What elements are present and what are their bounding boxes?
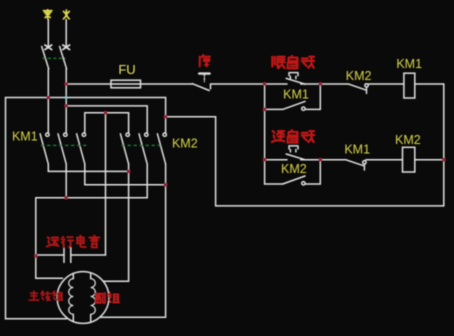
stop button blade: [192, 84, 209, 91]
coil KM2: [403, 147, 415, 172]
start fwd button cap: [289, 73, 298, 79]
wire C3 top lead: [84, 113, 86, 133]
start rev button blade: [286, 154, 305, 160]
wire node X drop to capacitor: [105, 113, 107, 255]
node L-line2: [64, 104, 68, 108]
wire line3 node X C3-C4: [85, 112, 129, 114]
svg-text:FU: FU: [118, 62, 135, 77]
hanzi labels drawn as strokes: [29, 10, 314, 304]
wire line2 L feed to C5: [66, 105, 147, 107]
wire N below switch to contact C1: [47, 69, 49, 133]
capacitor plates: [64, 248, 71, 263]
start rev button cap: [289, 146, 298, 152]
node fwd hold left: [263, 107, 267, 111]
wire control bottom rail: [216, 205, 444, 207]
wire C6 top lead: [165, 98, 167, 134]
node rev branch left: [263, 158, 267, 162]
label 火 live: [63, 10, 69, 19]
wire C4 bottom to motor aux top: [104, 164, 129, 281]
svg-text:KM2: KM2: [346, 69, 372, 83]
main contact C4: [126, 133, 129, 136]
node fwd branch left: [263, 82, 267, 86]
KM2 linkage dashed green: [122, 144, 161, 146]
wire outer box left+bottom to motor: [6, 98, 67, 319]
switch blade N pole: [42, 47, 49, 69]
node cap-left: [34, 254, 38, 258]
label 主线组 main winding: [29, 291, 62, 301]
svg-text:KM1: KM1: [396, 57, 422, 71]
KM1 NC interlock contact: [346, 160, 363, 166]
main contact C2: [64, 133, 67, 136]
node C3b-C6: [164, 183, 168, 187]
wire stop to branch junction: [211, 83, 288, 85]
wire C4 top lead: [128, 113, 130, 133]
main contact C5: [145, 133, 148, 136]
terminal X mark on L: [63, 45, 70, 50]
node C2b: [64, 196, 68, 200]
main contact C3: [82, 133, 85, 136]
wire C2 bottom: [65, 164, 67, 198]
wire C6 bottom to motor aux bottom: [100, 164, 166, 317]
svg-text:KM1: KM1: [344, 143, 370, 157]
wire C5 top lead: [146, 106, 148, 133]
main contact C1: [46, 133, 49, 136]
KM1 linkage dashed green: [41, 144, 89, 146]
wire N drop from 零: [47, 20, 49, 47]
wire neutral bus line1: [6, 97, 166, 99]
wire rev branch main: [265, 159, 287, 161]
node N return: [164, 115, 168, 119]
wire fwd branch to KM2 NC: [301, 83, 349, 85]
wire control return branch: [166, 116, 216, 118]
label 停 stop: [200, 55, 210, 66]
fuse FU body: [111, 80, 141, 88]
wire rev to KM1 NC: [301, 159, 347, 161]
stop button right terminal tick: [210, 84, 212, 89]
wire control return vertical: [215, 117, 217, 206]
wire L below switch to contact C2: [65, 69, 67, 133]
motor body circle: [57, 272, 109, 324]
svg-text:KM2: KM2: [395, 133, 421, 147]
wire branch left vertical: [264, 84, 266, 184]
node N bus: [46, 96, 50, 100]
motor main winding: [72, 273, 74, 321]
stop button plunger dashed: [203, 75, 205, 82]
crossover tick cyan: [65, 95, 67, 101]
wire C5 bottom to live node: [36, 164, 147, 198]
wire right rail: [443, 84, 445, 206]
wire C3 bottom to C6: [85, 164, 166, 185]
stop button cap: [199, 72, 209, 74]
KM2 NC interlock contact: [349, 84, 366, 90]
node L-FU: [64, 82, 68, 86]
node rev branch right: [318, 158, 322, 162]
switch linkage dashed green: [43, 57, 66, 59]
wire C1 bottom to C4: [48, 164, 128, 172]
node KM2 coil rail: [442, 158, 446, 162]
label 运行电容 run capacitor: [47, 236, 99, 248]
svg-text:KM2: KM2: [281, 162, 307, 176]
capacitor leads: [36, 254, 106, 256]
label 零 neutral: [43, 10, 52, 19]
KM1 self-hold contact branch: [265, 108, 283, 110]
label 逆启动 reverse start: [272, 130, 314, 142]
svg-text:KM1: KM1: [12, 130, 38, 144]
label 顺启动 forward start: [272, 56, 314, 68]
label 副线组 aux winding: [95, 293, 119, 304]
wire live node down to motor main top: [36, 198, 63, 278]
motor aux winding: [90, 273, 92, 321]
coil KM1: [404, 73, 415, 98]
wire L drop from 火: [65, 20, 67, 47]
node X drop: [104, 111, 108, 115]
node C1b-C4: [127, 169, 131, 173]
KM2 self-hold contact branch: [265, 183, 283, 185]
wire to KM2 coil: [366, 159, 403, 161]
switch blade L pole: [60, 47, 67, 69]
wire KM2 coil to rail: [415, 159, 444, 161]
node fwd branch right: [318, 82, 322, 86]
wire KM1 coil to rail: [415, 83, 444, 85]
wire L to fuse and stop: [66, 83, 192, 85]
wire to KM1 coil: [369, 83, 404, 85]
start fwd button blade: [286, 78, 305, 84]
svg-text:KM1: KM1: [283, 87, 309, 101]
terminal X mark on N: [45, 45, 52, 50]
svg-text:KM2: KM2: [172, 137, 198, 151]
main contact C6: [163, 133, 166, 136]
